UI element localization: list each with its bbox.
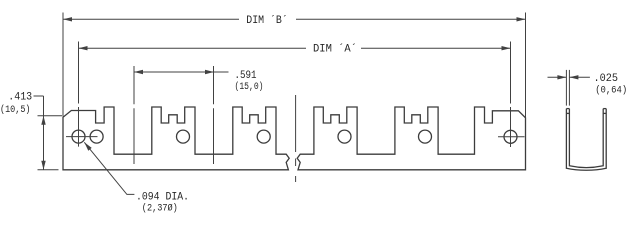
- svg-text:.413: .413: [8, 92, 32, 104]
- svg-text:.591: .591: [235, 70, 257, 82]
- svg-text:DIM ´B´: DIM ´B´: [246, 14, 287, 27]
- svg-text:.025: .025: [594, 73, 619, 85]
- svg-text:(15,0): (15,0): [235, 81, 264, 93]
- svg-text:.094 DIA.: .094 DIA.: [136, 191, 189, 203]
- svg-text:DIM ´A´: DIM ´A´: [313, 43, 357, 56]
- svg-text:(2,37Ø): (2,37Ø): [142, 202, 178, 214]
- svg-text:(10,5): (10,5): [0, 104, 31, 116]
- svg-text:(0,64): (0,64): [595, 85, 627, 97]
